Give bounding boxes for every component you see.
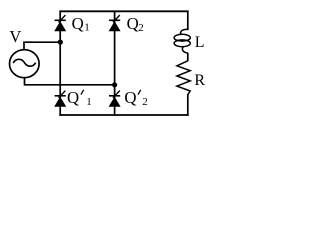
node A (junction on branch 1) — [58, 40, 63, 45]
svg-text:R: R — [194, 72, 205, 89]
thyristor Q'1 — [54, 91, 66, 107]
wire from source top terminal to node A — [24, 42, 60, 50]
thyristor Q2 — [109, 15, 121, 31]
label Q1 — [72, 14, 90, 34]
wire right side (load branch top segment) — [187, 11, 189, 31]
wire left leg (branch 1, x=60.2) — [59, 11, 61, 116]
svg-text:1: 1 — [84, 21, 90, 33]
svg-text:Q: Q — [72, 14, 84, 33]
svg-text:Q: Q — [127, 14, 139, 33]
svg-text:Q: Q — [67, 88, 79, 107]
label Q2 — [127, 14, 144, 34]
label Q'1 — [67, 88, 92, 108]
wire top rail — [59, 10, 188, 12]
wire bottom rail — [59, 114, 188, 116]
svg-text:Q: Q — [124, 88, 136, 107]
wire middle leg (branch 2, x=114.6) — [114, 11, 116, 116]
wire right side (between L and R) — [187, 53, 189, 61]
node B (junction on branch 2) — [112, 82, 117, 87]
svg-text:1: 1 — [86, 96, 92, 108]
thyristor Q'2 — [109, 91, 121, 107]
thyristor Q1 — [54, 15, 66, 31]
label Q'2 — [124, 88, 147, 108]
resistor R — [177, 61, 190, 95]
wire from source bottom terminal to node B — [25, 78, 115, 85]
ac source V — [9, 50, 39, 78]
svg-text:2: 2 — [138, 22, 144, 34]
svg-text:2: 2 — [142, 96, 148, 108]
wire right side (below R to bottom rail) — [187, 94, 189, 116]
svg-text:L: L — [195, 34, 205, 51]
svg-text:V: V — [9, 27, 21, 46]
inductor L — [174, 29, 190, 53]
